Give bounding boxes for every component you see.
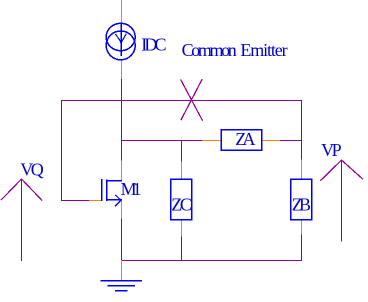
svg-text:Emitter: Emitter (240, 40, 287, 60)
svg-text:ZB: ZB (292, 194, 311, 214)
svg-text:ZC: ZC (171, 194, 192, 214)
svg-text:IDC: IDC (141, 34, 166, 54)
svg-text:Common: Common (182, 40, 237, 60)
svg-text:ZA: ZA (235, 129, 255, 149)
svg-text:VP: VP (321, 140, 342, 160)
svg-text:M1: M1 (121, 179, 142, 199)
svg-text:VQ: VQ (20, 160, 44, 180)
